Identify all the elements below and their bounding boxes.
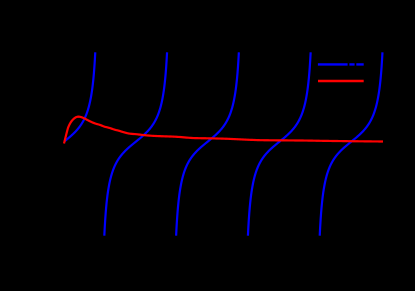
blue tan curve branch 2: [104, 52, 167, 235]
blue tan curve branch 4: [248, 52, 311, 235]
blue tan curve branch 3: [176, 52, 239, 235]
legend red sample: [318, 80, 364, 82]
blue tan curve branch 5: [320, 52, 383, 235]
blue tan curve branch 1: [64, 52, 95, 141]
legend blue dashed sample: [318, 63, 364, 65]
red curve: [64, 117, 383, 144]
